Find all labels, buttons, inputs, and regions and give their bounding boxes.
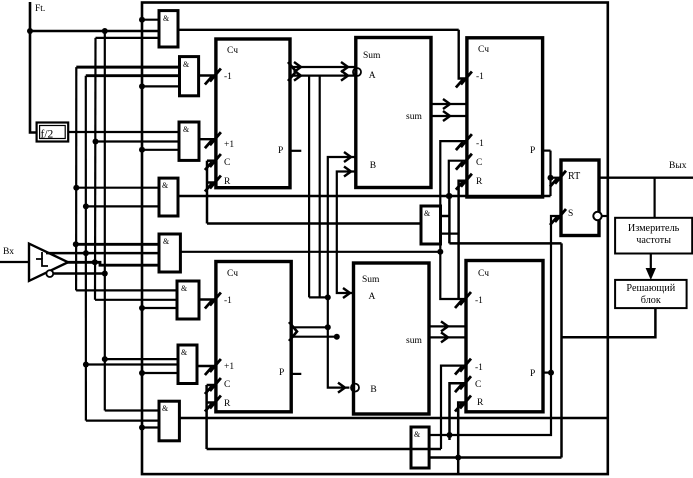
junction bus4/gate D7 tap bbox=[102, 356, 108, 362]
arrow to Sum1 A2 bbox=[341, 71, 348, 81]
wire Sum2 out line2 bbox=[429, 336, 466, 338]
wire U3 C feed bbox=[207, 384, 216, 387]
wire feedback h243 line bbox=[449, 242, 561, 245]
junction bus1/gate D4 tap bbox=[73, 185, 79, 191]
schmitt trigger DA1 bbox=[29, 244, 68, 281]
junction loop/D1 bbox=[139, 17, 145, 23]
svg-text:sum: sum bbox=[406, 336, 422, 346]
wire D5out up to U2 -1b bbox=[440, 141, 467, 299]
pin U2 R tick bbox=[461, 174, 472, 187]
junction P/RT R bbox=[548, 175, 554, 181]
wire U3 P stub bbox=[291, 373, 301, 375]
arrow on A line2 bbox=[294, 71, 301, 81]
svg-text:Sum: Sum bbox=[362, 275, 380, 285]
wire Vx input bbox=[0, 261, 29, 263]
svg-text:P: P bbox=[278, 146, 283, 156]
svg-text:&: & bbox=[183, 125, 190, 134]
counter U4 bbox=[466, 261, 543, 412]
pin U3 C tick bbox=[210, 378, 221, 391]
wire RT inverted out to loop bbox=[602, 215, 608, 217]
svg-text:&: & bbox=[163, 14, 170, 23]
divider f/2 box bbox=[37, 123, 69, 142]
wire bus196 up to U2 C bbox=[449, 161, 467, 196]
arrow sum2 line2 bbox=[441, 332, 448, 342]
junction C feed/bus196 bbox=[446, 193, 452, 199]
wire gate D3 output to U1 +1 bbox=[199, 138, 216, 140]
pin U2 C tick bbox=[461, 154, 472, 167]
wire Sum1 out line2 bbox=[431, 115, 467, 117]
bus wire 4 vertical bbox=[104, 31, 106, 411]
pin U4 R tick bbox=[460, 396, 471, 409]
svg-text:&: & bbox=[183, 60, 190, 69]
junction loop/D6 bbox=[139, 305, 145, 311]
svg-text:-1: -1 bbox=[476, 72, 484, 82]
pin U1 output chevrons bbox=[288, 62, 296, 81]
junction loop/D8 bbox=[139, 425, 145, 431]
pin RT inverted output bubble bbox=[593, 212, 601, 220]
bus wire 3 tap to gate D3 bbox=[96, 140, 180, 142]
arrow to Sum1 A1 bbox=[341, 62, 348, 72]
summator Sum2 bbox=[354, 263, 430, 414]
pin U4 C tick bbox=[460, 376, 471, 389]
svg-text:+1: +1 bbox=[224, 140, 234, 150]
divider f/2 inner bbox=[40, 126, 66, 139]
svg-text:Сч: Сч bbox=[227, 269, 238, 279]
wire U4 C feed bbox=[450, 383, 467, 440]
bus wire 2 top tap to gate D2 bbox=[86, 74, 180, 77]
wire U1 CR vertical bbox=[206, 161, 209, 224]
junction bus2/gate D4 tap bbox=[83, 203, 89, 209]
svg-text:&: & bbox=[424, 209, 431, 218]
svg-text:&: & bbox=[162, 181, 169, 190]
wire corridor join bbox=[309, 296, 328, 298]
bus wire 2 tap to gate D4 bbox=[86, 205, 159, 207]
wire loop tap to gate D3 bbox=[142, 149, 179, 151]
arrow to Sum2 B bbox=[338, 383, 345, 393]
wire U1 R feed bbox=[207, 181, 216, 184]
arrow sum1 line1 bbox=[443, 99, 450, 109]
pin U1 R tick bbox=[210, 176, 221, 189]
wire loop tap to gate D1 bbox=[142, 19, 159, 21]
arrow sum2 line1 bbox=[441, 321, 448, 331]
bus wire 3 top tap to gate D1 bbox=[96, 37, 160, 39]
wire U3 out line1 bbox=[291, 326, 328, 328]
wire f/2 output to gate D3 bbox=[68, 131, 179, 133]
svg-text:B: B bbox=[370, 385, 376, 395]
svg-text:C: C bbox=[224, 380, 230, 390]
arrow sum1 line2 bbox=[443, 111, 450, 121]
junction U4C/D9 line bbox=[447, 432, 453, 438]
wire feedback vertical bbox=[560, 243, 563, 457]
outer feedback loop wire bbox=[142, 3, 608, 475]
and gate D7 bbox=[178, 345, 197, 384]
pin RT R tick bbox=[555, 171, 566, 184]
svg-text:A: A bbox=[369, 292, 376, 302]
wire U4 R feed bbox=[458, 403, 466, 475]
bus wire 1 vertical bbox=[75, 67, 77, 290]
svg-text:Сч: Сч bbox=[478, 269, 489, 279]
pin U4 -1a tick bbox=[460, 292, 471, 305]
svg-text:Измеритель: Измеритель bbox=[628, 223, 680, 234]
wire U3 R feed bbox=[207, 401, 216, 404]
pin U2 -1a tick bbox=[461, 72, 472, 85]
bus wire 3 bottom tap to gate D6 bbox=[95, 299, 177, 301]
wire U3 out line2 bbox=[291, 336, 337, 338]
wire U1 out A line2 bbox=[290, 74, 356, 76]
svg-text:A: A bbox=[369, 71, 376, 81]
junction loop/D3 bbox=[139, 147, 145, 153]
wire corridor v2 bbox=[319, 76, 321, 298]
svg-text:C: C bbox=[224, 158, 230, 168]
junction U3out/v4 bbox=[334, 334, 340, 340]
junction corridor v3 bbox=[325, 294, 331, 300]
block frequency meter bbox=[615, 218, 692, 254]
pin U3 R tick bbox=[210, 396, 221, 409]
and gate D8 bbox=[159, 401, 179, 441]
bus wire 4 tap to gate D7 bbox=[105, 358, 178, 360]
and gate D9 bbox=[411, 427, 429, 468]
junction v449/bus196 bbox=[446, 193, 452, 199]
svg-text:Вых: Вых bbox=[669, 161, 687, 171]
svg-text:P: P bbox=[530, 369, 535, 379]
wire U1 P stub bbox=[290, 150, 301, 152]
and gate D2 bbox=[180, 57, 199, 96]
svg-text:-1: -1 bbox=[224, 296, 232, 306]
wire Sum1 out line1 bbox=[431, 103, 467, 105]
svg-text:&: & bbox=[181, 348, 188, 357]
wire gate D8 output bus bbox=[179, 417, 607, 419]
junction U4R/line458 bbox=[455, 455, 461, 461]
svg-text:&: & bbox=[414, 430, 421, 439]
wire D10 out link bbox=[441, 233, 459, 235]
pin Sum1 A bubble bbox=[353, 68, 361, 76]
wire U2 P down bbox=[549, 151, 551, 196]
wire gate D4 output bus bbox=[178, 195, 551, 197]
bus wire 1 bottom tap to gate D6 bbox=[76, 289, 177, 291]
wire gate D6 output to U3 -1 bbox=[199, 298, 216, 300]
wire RT output Vyx bbox=[599, 176, 693, 178]
summator Sum1 bbox=[356, 38, 431, 188]
svg-text:-1: -1 bbox=[476, 139, 484, 149]
junction loop/D7 bbox=[139, 370, 145, 376]
wire D9 line to feedback bbox=[429, 456, 561, 459]
arrow to Sum2 A bbox=[343, 288, 350, 298]
bus wire 4 bottom tap to gate D8 bbox=[105, 409, 159, 411]
counter U2 bbox=[467, 38, 543, 197]
wire corridor v3 Sum1B1 to Sum2B bbox=[328, 157, 356, 388]
and gate D1 bbox=[159, 11, 178, 47]
svg-text:&: & bbox=[162, 404, 169, 413]
svg-text:частоты: частоты bbox=[636, 235, 671, 246]
pin U1 C tick bbox=[210, 154, 221, 167]
junction U3out/v3 bbox=[325, 324, 331, 330]
counter U3 bbox=[216, 262, 291, 412]
bus wire 2 vertical bbox=[85, 76, 87, 421]
svg-text:P: P bbox=[279, 368, 284, 378]
svg-text:C: C bbox=[475, 380, 481, 390]
wire loop tap to gate D7 bbox=[142, 372, 178, 374]
wire loop tap to gate D2 bbox=[142, 85, 180, 87]
arrow meter to decision block bbox=[650, 254, 652, 273]
svg-text:R: R bbox=[224, 177, 231, 187]
junction Ft line bbox=[27, 28, 33, 34]
bus wire 1 tap to gate D4 bbox=[76, 187, 159, 189]
svg-text:-1: -1 bbox=[224, 72, 232, 82]
wire decision block feedback bbox=[562, 308, 656, 337]
wire to RT R input bbox=[551, 177, 562, 179]
wire D1 out down to counter U2 -1 bbox=[459, 30, 467, 79]
pin U1 +1 tick bbox=[210, 132, 221, 145]
wire Sum2 out line1 bbox=[429, 325, 466, 327]
pin U3 -1 tick bbox=[210, 293, 221, 306]
svg-text:S: S bbox=[568, 209, 573, 219]
wire U4 -1b feed bbox=[441, 366, 466, 449]
block decision unit bbox=[615, 280, 687, 308]
and gate D3 bbox=[179, 122, 199, 160]
junction bus2/gate D5 tap bbox=[83, 250, 89, 256]
junction Ft/bus4 bbox=[102, 28, 108, 34]
wire corridor v1 bbox=[308, 76, 310, 298]
wire R bus to gate D10 bbox=[207, 222, 421, 224]
wire trigger inverted output bbox=[53, 272, 104, 275]
junction loop/D2 bbox=[139, 83, 145, 89]
wire corridor v4 Sum1B2 to Sum2A bbox=[337, 172, 356, 294]
svg-text:R: R bbox=[476, 177, 483, 187]
svg-text:Ft.: Ft. bbox=[35, 4, 45, 14]
junction trigger direct/bus1 bbox=[73, 241, 79, 247]
svg-text:C: C bbox=[476, 158, 482, 168]
svg-text:Сч: Сч bbox=[227, 46, 238, 56]
arrow on A line1 bbox=[294, 62, 301, 72]
and gate D4 bbox=[159, 178, 178, 216]
wire U2 R feed vertical bbox=[459, 181, 467, 300]
svg-text:&: & bbox=[163, 237, 170, 246]
wire trigger slant output to gate D5 bbox=[46, 252, 159, 255]
svg-text:блок: блок bbox=[641, 295, 661, 306]
wire gate D1 output bbox=[178, 29, 459, 31]
svg-text:-1: -1 bbox=[475, 363, 483, 373]
wire U1 C feed bbox=[207, 159, 216, 162]
svg-text:f/2: f/2 bbox=[41, 129, 54, 141]
svg-text:R: R bbox=[224, 399, 231, 409]
wire U2 P stub bbox=[543, 150, 551, 152]
junction inverted/bus4 bbox=[102, 271, 108, 277]
wire D9 output to RT S bbox=[429, 216, 561, 435]
arrow to Sum1 B2 bbox=[344, 167, 351, 177]
and gate D5 bbox=[159, 234, 180, 272]
wire D10 output stub bbox=[441, 215, 450, 218]
junction bus3/gate D3 tap bbox=[93, 139, 99, 145]
and gate D6 bbox=[177, 281, 199, 319]
svg-text:&: & bbox=[181, 284, 188, 293]
wire trigger apex output bbox=[66, 262, 159, 265]
svg-text:Вх: Вх bbox=[3, 247, 14, 257]
wire U3 CR vertical bbox=[205, 385, 208, 449]
svg-text:+1: +1 bbox=[224, 362, 234, 372]
wire gate D7 output to U3 +1 bbox=[197, 365, 216, 367]
wire Ft input vertical bbox=[30, 2, 37, 133]
bus wire 1 left bbox=[76, 66, 179, 69]
svg-text:P: P bbox=[530, 146, 535, 156]
junction D5out/v440 bbox=[437, 249, 443, 255]
wire gate D2 output to U1 -1 bbox=[199, 74, 216, 76]
svg-text:sum: sum bbox=[406, 112, 422, 122]
svg-text:Сч: Сч bbox=[478, 45, 489, 55]
pin U3 +1 tick bbox=[210, 359, 221, 372]
svg-text:Решающий: Решающий bbox=[626, 283, 675, 294]
wire loop tap to gate D6 bbox=[142, 307, 177, 309]
wire R bus bottom bbox=[207, 448, 441, 450]
wire U4 P stub bbox=[543, 372, 551, 374]
wire loop tap to gate D8 bbox=[142, 426, 159, 428]
wire Ft to gate D1 input bbox=[30, 30, 159, 32]
pin U2 -1b tick bbox=[461, 134, 472, 147]
wire trigger direct output bbox=[76, 243, 159, 246]
arrow to Sum1 B1 bbox=[344, 152, 351, 162]
and gate D10 bbox=[421, 206, 441, 244]
svg-text:Sum: Sum bbox=[363, 51, 381, 61]
svg-text:B: B bbox=[370, 161, 376, 171]
junction bus2/gate D7 tap bbox=[83, 362, 89, 368]
bus wire 2 bottom tap to gate D8 bbox=[86, 420, 159, 422]
wire tap to frequency meter bbox=[653, 178, 655, 218]
pin Sum2 B bubble bbox=[351, 384, 359, 392]
schmitt trigger inverted output bubble bbox=[46, 270, 53, 277]
trigger RT bbox=[561, 160, 599, 236]
svg-text:-1: -1 bbox=[475, 296, 483, 306]
wire v449 bus196 to h243 bbox=[448, 196, 451, 243]
junction U4P/S line bbox=[548, 370, 554, 376]
pin U1 -1 tick bbox=[210, 69, 221, 82]
bus wire 3 vertical bbox=[94, 38, 97, 300]
svg-text:R: R bbox=[477, 398, 484, 408]
counter U1 bbox=[216, 39, 290, 188]
junction apex/bus3 bbox=[92, 259, 98, 265]
wire U1 out A line1 bbox=[290, 66, 356, 68]
pin RT S tick bbox=[555, 209, 566, 222]
wire gate D5 output bbox=[180, 251, 440, 253]
pin U4 -1b tick bbox=[460, 359, 471, 372]
pin U3 output chevrons bbox=[289, 322, 297, 341]
bus wire 2 tap to gate D7 bbox=[86, 363, 178, 365]
svg-text:RT: RT bbox=[568, 171, 580, 182]
